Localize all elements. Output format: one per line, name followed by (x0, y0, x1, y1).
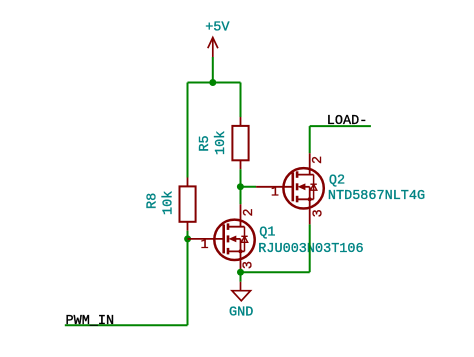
svg-text:LOAD-: LOAD- (327, 114, 368, 129)
wire LOAD- horizontal (310, 125, 371, 127)
wire PWM_IN horizontal (65, 324, 188, 326)
svg-text:RJU003N03T106: RJU003N03T106 (258, 242, 363, 257)
junction R8/Q1-gate (184, 235, 191, 242)
power symbol +5V (208, 38, 218, 58)
wire top horizontal (188, 82, 241, 84)
wire Q1 source to GND (240, 272, 242, 282)
junction at +5V (209, 79, 216, 86)
svg-text:Q2: Q2 (329, 173, 345, 188)
resistor R5 (232, 117, 248, 169)
svg-text:GND: GND (229, 306, 253, 321)
svg-text:Q1: Q1 (259, 225, 275, 240)
wire left branch lower (187, 231, 189, 326)
svg-text:3: 3 (242, 261, 257, 269)
transistor Q1 (188, 204, 255, 272)
wire Q2 source vertical (309, 224, 311, 272)
junction Q1 source (237, 269, 244, 276)
ground symbol (232, 282, 251, 301)
svg-text:2: 2 (242, 208, 257, 216)
svg-text:+5V: +5V (205, 20, 230, 35)
svg-text:3: 3 (311, 209, 326, 217)
transistor Q2 (256, 153, 324, 224)
wire node to Q2 gate (240, 186, 256, 188)
svg-text:PWM_IN: PWM_IN (66, 314, 115, 329)
svg-text:NTD5867NLT4G: NTD5867NLT4G (328, 189, 425, 204)
svg-text:10k: 10k (162, 191, 177, 215)
wire left branch upper (187, 83, 189, 178)
resistor R8 (180, 178, 196, 231)
svg-text:1: 1 (271, 185, 279, 200)
svg-text:10k: 10k (214, 131, 229, 155)
wire Q1 source to Q2 source horizontal (241, 271, 310, 273)
svg-text:R8: R8 (145, 193, 160, 209)
wire R5 to Q1 drain (240, 169, 242, 204)
svg-text:R5: R5 (198, 135, 213, 151)
junction R5/Q1/Q2-gate (237, 183, 244, 190)
wire Q2 drain vertical (309, 126, 311, 153)
wire +5V stem (212, 57, 214, 83)
svg-text:1: 1 (200, 238, 208, 253)
svg-text:2: 2 (311, 156, 326, 164)
wire right branch upper (240, 83, 242, 118)
